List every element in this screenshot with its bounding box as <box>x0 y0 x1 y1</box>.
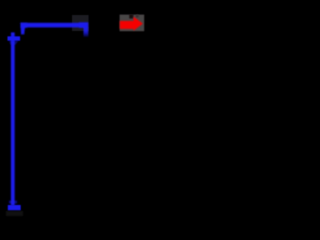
top cap pad <box>8 36 21 40</box>
halo under bottom cap <box>6 211 23 216</box>
blue wire group <box>9 22 89 205</box>
component U2 (faint dark button body) <box>72 15 89 31</box>
left leg stub <box>20 23 25 35</box>
blue cap group (crisper) <box>8 36 21 210</box>
pin notch 2 on U1 <box>136 15 139 18</box>
red arrow marker (probe arrow) <box>120 17 143 31</box>
pin notch on U1 <box>129 14 133 18</box>
right leg stub (fading) <box>84 27 89 37</box>
canvas background <box>0 0 220 220</box>
junction at left end <box>20 23 27 28</box>
bottom cap pad <box>8 205 21 210</box>
bottom wing <box>9 201 17 204</box>
junction at right end <box>79 22 88 28</box>
wire: horizontal segment <box>21 23 89 28</box>
top cap taper <box>9 41 18 45</box>
component U1 (gray button body) <box>120 15 145 32</box>
wire: vertical segment <box>11 32 15 205</box>
